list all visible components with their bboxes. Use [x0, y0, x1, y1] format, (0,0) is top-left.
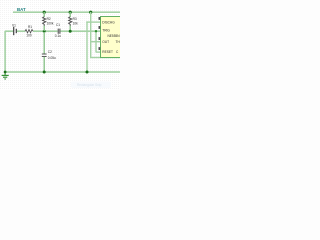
pin number 2	[99, 26, 101, 29]
wire DISCHG horizontal	[86, 21, 100, 22]
junction node A (R2 bottom / middle wire)	[43, 30, 46, 33]
svg-text:NE555N: NE555N	[108, 34, 121, 38]
ground symbol	[2, 72, 9, 79]
svg-text:100k: 100k	[47, 22, 54, 26]
wire R3 leads vertical	[70, 12, 71, 17]
svg-text:0.1u: 0.1u	[55, 34, 61, 38]
wire C2 branch vertical upper	[44, 32, 45, 54]
wire left vertical to ground	[4, 31, 6, 73]
junction C2 / ground wire	[43, 71, 46, 74]
junction x86 / ground wire	[86, 71, 89, 74]
junction top wire / R3	[69, 11, 72, 14]
junction top wire / x91 branch	[89, 11, 92, 14]
wire middle horizontal left (battery row)	[5, 30, 14, 32]
svg-text:Rectangular Snip: Rectangular Snip	[77, 83, 102, 87]
op-amp U1 555 timer box	[101, 17, 127, 58]
svg-text:10k: 10k	[73, 22, 79, 26]
junction x96 / RESET wire	[95, 30, 97, 32]
wire vertical x91 (BAT to OUT row to box bottom)	[90, 12, 91, 58]
background	[0, 0, 120, 90]
svg-text:C2: C2	[48, 50, 52, 54]
wire BAT top horizontal	[13, 11, 120, 13]
resistor R3 (vertical)	[69, 17, 79, 26]
svg-text:R1: R1	[28, 25, 32, 29]
wire middle horizontal (R1 to C1)	[33, 30, 58, 32]
junction ground-left	[4, 71, 7, 74]
svg-text:100: 100	[26, 33, 32, 37]
svg-text:OUT: OUT	[102, 40, 109, 44]
svg-text:R2: R2	[47, 17, 51, 21]
wire middle horizontal (C1 to TRIG pin)	[61, 30, 101, 32]
battery V1	[12, 23, 16, 35]
capacitor C1 (series, on middle wire)	[55, 23, 61, 38]
junction node B (R3 bottom / middle wire)	[69, 30, 72, 33]
svg-text:0.05u: 0.05u	[48, 56, 56, 60]
svg-text:R3: R3	[73, 17, 77, 21]
wire middle horizontal (battery to R1)	[17, 30, 26, 32]
pin number 4	[99, 47, 101, 50]
capacitor C2	[42, 50, 56, 60]
wire C2 branch vertical lower	[44, 57, 45, 72]
pin number 3	[99, 37, 101, 40]
wire R2 leads vertical	[44, 12, 45, 17]
wire vertical x96 (TRIG to RESET)	[95, 31, 96, 53]
resistor R1 (horizontal)	[25, 25, 33, 38]
wire bottom ground horizontal	[5, 71, 120, 73]
junction top wire / R2	[43, 11, 46, 14]
svg-text:DISCHG: DISCHG	[102, 20, 115, 24]
svg-text:TRIG: TRIG	[102, 29, 110, 33]
wire RESET stub	[96, 51, 101, 52]
svg-text:RESET: RESET	[102, 50, 113, 54]
svg-text:V1: V1	[12, 23, 16, 27]
wire box-bottom horizontal from x91	[90, 57, 120, 58]
wire OUT horizontal	[90, 41, 101, 42]
pin number 7	[99, 17, 101, 20]
svg-text:TH: TH	[116, 40, 121, 44]
resistor R2 (vertical)	[43, 17, 54, 26]
svg-text:BAT: BAT	[17, 7, 26, 12]
wire vertical x86 (DISCHG to ground)	[86, 21, 87, 72]
svg-text:C1: C1	[56, 23, 60, 27]
snipping tool watermark	[71, 82, 111, 89]
